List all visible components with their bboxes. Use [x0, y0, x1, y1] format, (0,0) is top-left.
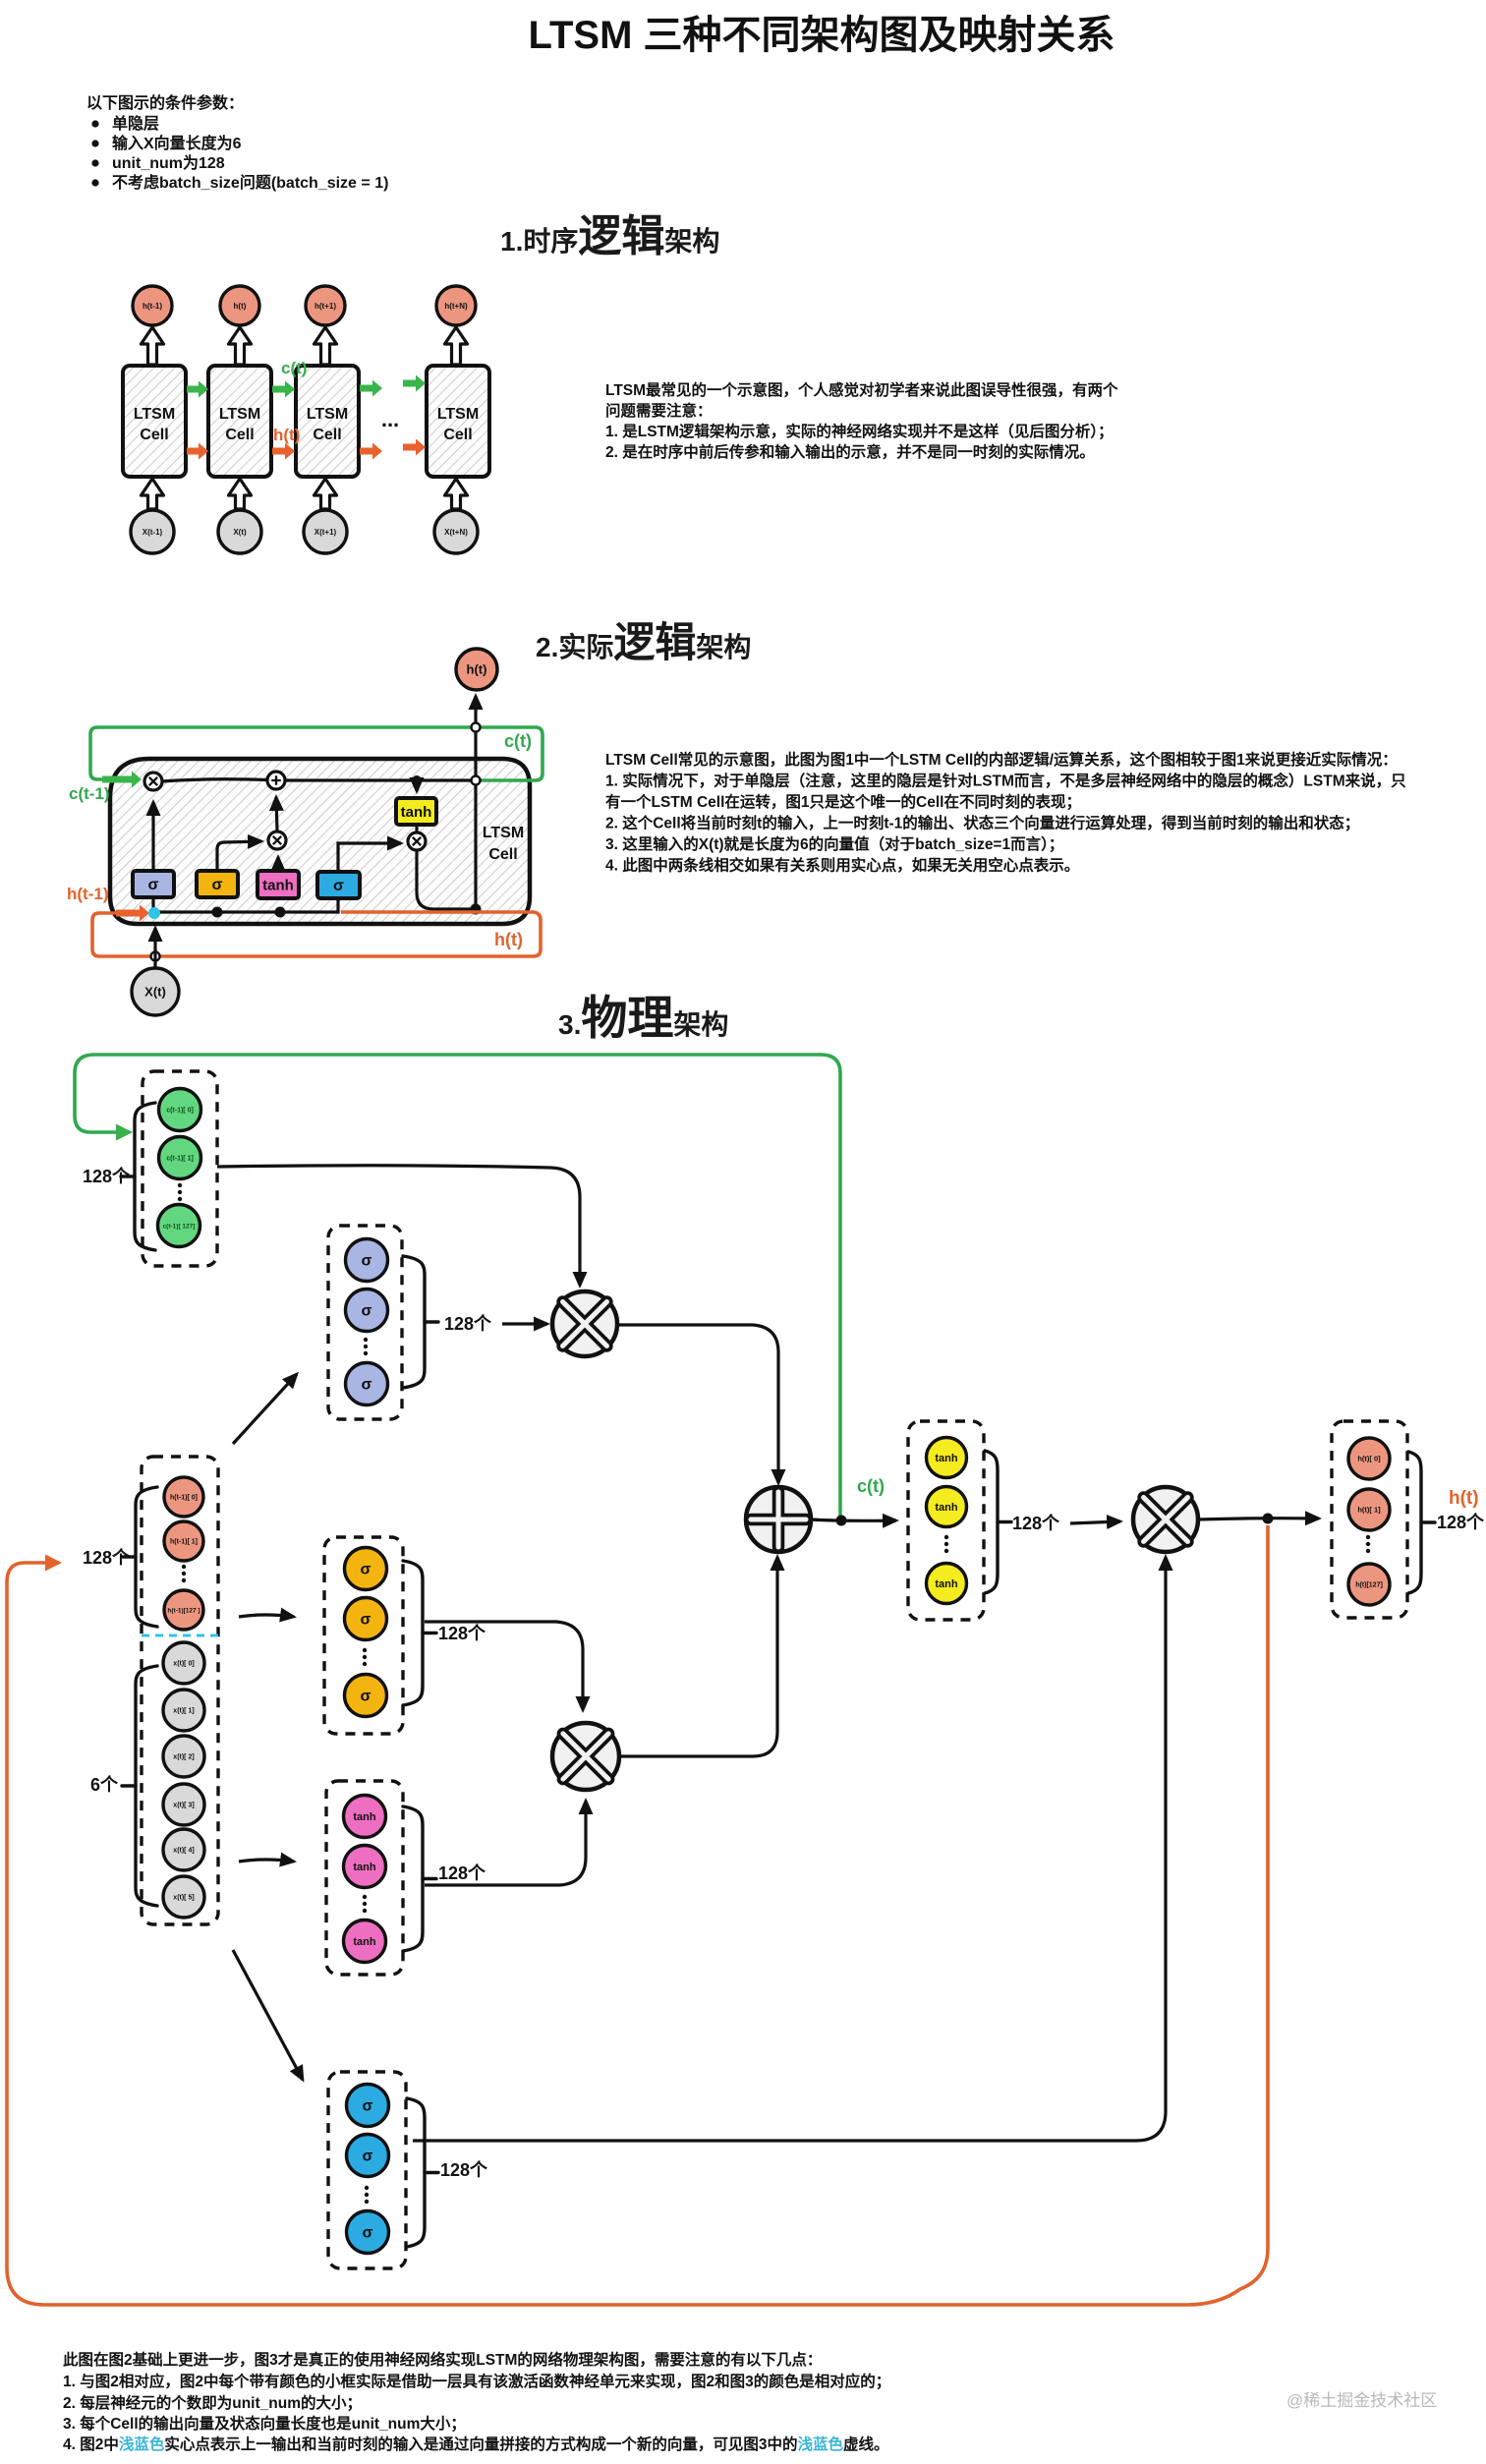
svg-text:σ: σ — [361, 1562, 371, 1578]
neuron h(t-1)[0] — [164, 1477, 203, 1517]
svg-text:h(t+N): h(t+N) — [444, 302, 468, 311]
internal c-state wire — [162, 779, 482, 781]
svg-text:h(t)[127]: h(t)[127] — [1355, 1581, 1383, 1588]
neuron x(t)[ 4] — [163, 1829, 204, 1870]
svg-text:h(t-1)[ 0]: h(t-1)[ 0] — [170, 1494, 198, 1501]
svg-text:X(t+N): X(t+N) — [444, 528, 468, 537]
brace x(t) — [136, 1666, 157, 1906]
neuron sigma-o 2 — [347, 2135, 389, 2177]
svg-text:1. 是LSTM逻辑架构示意，实际的神经网络实现并不是这样（: 1. 是LSTM逻辑架构示意，实际的神经网络实现并不是这样（见后图分析）； — [605, 422, 1114, 440]
group tanh-c dashed box — [326, 1781, 403, 1975]
wire c-line to tanh2 — [415, 780, 418, 791]
svg-text:6个: 6个 — [90, 1774, 119, 1795]
dots — [364, 1338, 368, 1342]
orange h(t) feedback loop — [92, 912, 541, 956]
internal h wire (bottom) — [155, 843, 401, 912]
svg-text:c(t-1)[ 1]: c(t-1)[ 1] — [166, 1155, 194, 1162]
output circle h(t) — [220, 286, 259, 325]
svg-text:4. 此图中两条线相交如果有关系则用实心点，如果无关用空心点: 4. 此图中两条线相交如果有关系则用实心点，如果无关用空心点表示。 — [605, 856, 1079, 875]
svg-text:LTSM: LTSM — [437, 406, 479, 423]
svg-text:2.实际逻辑架构: 2.实际逻辑架构 — [536, 619, 751, 665]
arrow sigma-f to mul1 — [502, 1322, 547, 1325]
group sigma-i dashed box — [324, 1537, 403, 1734]
wire plus to tanh-o group — [811, 1519, 896, 1520]
svg-text:x(t)[ 2]: x(t)[ 2] — [173, 1753, 194, 1760]
svg-text:128个: 128个 — [1437, 1512, 1485, 1532]
svg-text:2. 是在时序中前后传参和输入输出的示意，并不是同一时刻的实: 2. 是在时序中前后传参和输入输出的示意，并不是同一时刻的实际情况。 — [605, 442, 1095, 461]
neuron h(t)[1] — [1348, 1489, 1390, 1530]
svg-text:问题需要注意：: 问题需要注意： — [605, 401, 713, 420]
brace c(t-1) group — [135, 1103, 155, 1250]
gate sigma3 (blue) — [317, 872, 360, 898]
neuron x(t)[ 1] — [163, 1690, 204, 1731]
neuron x(t)[ 2] — [163, 1736, 204, 1777]
brace tanh-o — [985, 1451, 998, 1593]
green c(t) long loop — [75, 1055, 840, 1521]
svg-text:h(t): h(t) — [234, 302, 247, 311]
neuron tanh-o 2 — [927, 1487, 967, 1527]
svg-text:128个: 128个 — [83, 1166, 131, 1186]
junction dots on h wire — [212, 907, 223, 918]
svg-text:σ: σ — [333, 878, 344, 894]
svg-text:σ: σ — [212, 877, 223, 893]
neuron h(t-1)[1] — [164, 1521, 203, 1561]
gate sigma1 (periwinkle) — [133, 871, 174, 897]
dots — [1366, 1535, 1370, 1539]
svg-text:σ: σ — [363, 2225, 373, 2242]
svg-text:h(t-1)[ 1]: h(t-1)[ 1] — [170, 1538, 198, 1545]
svg-text:c(t-1): c(t-1) — [69, 784, 110, 803]
neuron x(t)[ 5] — [163, 1876, 204, 1918]
output circle h(t+N) — [436, 286, 476, 325]
wire mul1 to plus — [617, 1325, 778, 1483]
neuron x(t)[ 0] — [163, 1642, 204, 1684]
svg-text:x(t)[ 3]: x(t)[ 3] — [173, 1802, 194, 1808]
group tanh-o dashed box — [908, 1421, 984, 1620]
dots — [365, 2186, 369, 2190]
junction dot c(t) — [836, 1516, 847, 1526]
op X1 — [144, 773, 162, 790]
dots — [178, 1183, 182, 1187]
wire tanh2 to X3 — [415, 825, 418, 832]
input circle X(t+N) — [434, 510, 478, 553]
neuron h(t-1)[127] — [164, 1590, 203, 1630]
X(t) input wire — [153, 928, 156, 968]
svg-text:128个: 128个 — [438, 1862, 486, 1883]
gate sigma2 (amber) — [197, 871, 238, 897]
svg-text:3. 每个Cell的输出向量及状态向量长度也是unit_nu: 3. 每个Cell的输出向量及状态向量长度也是unit_num大小； — [63, 2414, 466, 2433]
h(t) orange arrows between cells — [187, 443, 208, 460]
svg-text:128个: 128个 — [444, 1313, 492, 1334]
svg-text:此图在图2基础上更进一步，图3才是真正的使用神经网络实现LS: 此图在图2基础上更进一步，图3才是真正的使用神经网络实现LSTM的网络物理架构图… — [63, 2350, 822, 2369]
svg-text:Cell: Cell — [443, 427, 472, 443]
svg-text:σ: σ — [363, 2149, 373, 2165]
svg-text:tanh: tanh — [935, 1578, 958, 1590]
gate tanh (pink) — [257, 871, 299, 898]
orange h(t) long loop — [7, 1525, 1268, 2305]
neuron sigma-f 3 — [346, 1363, 388, 1405]
LSTM cell body hatched box — [110, 759, 530, 924]
output circle h(t+1) — [306, 286, 345, 325]
svg-text:σ: σ — [363, 2098, 373, 2115]
svg-text:不考虑batch_size问题(batch_size = 1: 不考虑batch_size问题(batch_size = 1) — [112, 173, 388, 192]
svg-text:tanh: tanh — [353, 1862, 376, 1873]
svg-text:σ: σ — [361, 1689, 371, 1705]
input circle X(t+1) — [304, 510, 347, 553]
output wire up to h(t) — [474, 696, 477, 909]
svg-text:X(t+1): X(t+1) — [314, 528, 337, 537]
svg-text:h(t+1): h(t+1) — [314, 302, 336, 311]
svg-text:h(t): h(t) — [1449, 1488, 1479, 1509]
neuron tanh-c 1 — [344, 1796, 386, 1838]
svg-text:c(t): c(t) — [857, 1476, 885, 1496]
svg-text:输入X向量长度为6: 输入X向量长度为6 — [112, 134, 242, 152]
svg-text:LTSM: LTSM — [219, 406, 260, 423]
gate tanh2 (yellow) — [396, 798, 436, 825]
svg-text:h(t): h(t) — [494, 930, 523, 949]
group h(t) dashed box — [1332, 1421, 1407, 1618]
svg-text:LTSM: LTSM — [134, 406, 175, 423]
group sigma-f dashed box — [328, 1226, 402, 1419]
svg-text:σ: σ — [361, 1612, 371, 1629]
wire X2 to plus — [276, 797, 277, 831]
svg-text:1. 与图2相对应，图2中每个带有颜色的小框实际是借助一层具: 1. 与图2相对应，图2中每个带有颜色的小框实际是借助一层具有该激活函数神经单元… — [63, 2372, 890, 2390]
wire tanh-c to mul2 — [425, 1801, 586, 1885]
arrow tanh-o to mul3 — [1070, 1521, 1120, 1523]
svg-text:3. 这里输入的X(t)就是长度为6的向量值（对于batch: 3. 这里输入的X(t)就是长度为6的向量值（对于batch_size=1而言）… — [605, 834, 1063, 853]
open dot crossings — [472, 723, 481, 732]
wire sigma2 to X2 — [217, 841, 261, 871]
neuron h(t)[0] — [1348, 1438, 1390, 1479]
block arrow X(t) to cell2 — [229, 479, 252, 509]
LSTM cell 2 — [208, 366, 271, 477]
svg-text:LTSM: LTSM — [307, 406, 348, 423]
svg-text:LTSM最常见的一个示意图，个人感觉对初学者来说此图误导性很: LTSM最常见的一个示意图，个人感觉对初学者来说此图误导性很强，有两个 — [605, 380, 1118, 399]
block arrow cell2 to h(t) — [229, 327, 252, 365]
arrow to sigma-i group — [239, 1615, 294, 1617]
input circle X(t) — [218, 510, 261, 553]
dots — [944, 1535, 948, 1539]
neuron tanh-o 1 — [927, 1438, 967, 1478]
neuron x(t)[ 3] — [163, 1784, 204, 1825]
block arrow X(t-1) to cell1 — [142, 479, 164, 509]
h(t) output circle — [456, 649, 497, 690]
svg-text:Cell: Cell — [225, 427, 254, 443]
svg-text:tanh: tanh — [262, 877, 294, 893]
arrow to sigma-o group — [233, 1950, 303, 2080]
svg-text:σ: σ — [362, 1253, 372, 1270]
brace h(t) group — [1408, 1452, 1421, 1593]
wire sigma-i to mul2 — [425, 1622, 583, 1710]
multiply node mul3 — [1133, 1487, 1198, 1552]
svg-text:x(t)[ 4]: x(t)[ 4] — [173, 1847, 194, 1854]
neuron sigma-f 1 — [346, 1239, 388, 1282]
LSTM cell 1 — [123, 366, 186, 477]
svg-text:...: ... — [381, 407, 399, 431]
block arrow cell3 to h(t+1) — [314, 327, 337, 365]
svg-text:X(t): X(t) — [144, 985, 166, 1000]
wire mul2 to plus — [619, 1557, 777, 1756]
brace sigma-f group — [403, 1256, 425, 1388]
svg-text:1. 实际情况下，对于单隐层（注意，这里的隐层是针对LSTM: 1. 实际情况下，对于单隐层（注意，这里的隐层是针对LSTM而言，不是多层神经网… — [605, 772, 1406, 790]
neuron sigma-i 3 — [345, 1675, 387, 1717]
svg-text:以下图示的条件参数：: 以下图示的条件参数： — [86, 93, 244, 112]
X(t) circle — [132, 968, 179, 1015]
wire sigma1 to X1 — [151, 802, 154, 871]
input circle X(t-1) — [131, 510, 174, 553]
svg-text:h(t): h(t) — [467, 662, 487, 677]
wire sigma-o to mul3 — [413, 1557, 1166, 2141]
neuron sigma-f 2 — [346, 1289, 388, 1332]
svg-text:128个: 128个 — [438, 1623, 486, 1643]
svg-text:LTSM: LTSM — [483, 825, 524, 841]
svg-text:tanh: tanh — [353, 1811, 376, 1823]
svg-text:x(t)[ 1]: x(t)[ 1] — [173, 1707, 194, 1714]
cyan concat divider — [142, 1634, 218, 1637]
LSTM cell 4 — [427, 366, 489, 477]
neuron c(t-1)[127] — [158, 1205, 200, 1247]
svg-text:3.物理架构: 3.物理架构 — [558, 992, 728, 1044]
svg-text:2. 每层神经元的个数即为unit_num的大小；: 2. 每层神经元的个数即为unit_num的大小； — [63, 2393, 362, 2412]
svg-text:c(t): c(t) — [281, 359, 307, 377]
svg-text:σ: σ — [148, 877, 159, 893]
svg-text:tanh: tanh — [935, 1502, 958, 1514]
green c(t) feedback loop — [90, 727, 543, 780]
svg-text:tanh: tanh — [353, 1936, 376, 1948]
neuron sigma-i 2 — [345, 1598, 387, 1640]
arrow to sigma-f group — [233, 1374, 297, 1444]
svg-text:Cell: Cell — [313, 427, 341, 443]
svg-text:LTSM 三种不同架构图及映射关系: LTSM 三种不同架构图及映射关系 — [528, 14, 1114, 57]
junction dot h(t) — [1263, 1514, 1274, 1524]
svg-text:@稀土掘金技术社区: @稀土掘金技术社区 — [1286, 2391, 1437, 2410]
group sigma-o dashed box — [328, 2072, 406, 2268]
multiply node mul2 — [552, 1723, 619, 1790]
svg-text:c(t-1)[ 127]: c(t-1)[ 127] — [163, 1223, 196, 1230]
wire X3 to output junction — [417, 850, 475, 909]
neuron h(t)[127] — [1348, 1564, 1390, 1605]
op plus — [267, 772, 285, 789]
dots — [363, 1895, 367, 1899]
svg-text:Cell: Cell — [488, 846, 517, 863]
svg-text:x(t)[ 5]: x(t)[ 5] — [173, 1894, 194, 1901]
brace sigma-i — [403, 1561, 423, 1705]
wire tanh to X2 — [276, 857, 279, 870]
svg-text:c(t-1)[ 0]: c(t-1)[ 0] — [166, 1107, 194, 1114]
group c(t-1) dashed box — [143, 1071, 217, 1266]
svg-text:X(t-1): X(t-1) — [143, 528, 163, 537]
dots — [363, 1648, 367, 1652]
neuron sigma-o 3 — [347, 2211, 389, 2254]
svg-text:h(t-1): h(t-1) — [67, 885, 108, 903]
brace tanh-c — [403, 1806, 423, 1951]
wire c(t-1) group to mul1 — [217, 1166, 580, 1286]
svg-text:σ: σ — [362, 1377, 372, 1394]
svg-text:128个: 128个 — [1012, 1513, 1060, 1533]
add node plus — [746, 1487, 811, 1552]
svg-text:h(t-1): h(t-1) — [143, 302, 162, 311]
svg-text:2. 这个Cell将当前时刻t的输入，上一时刻t-1的输出、: 2. 这个Cell将当前时刻t的输入，上一时刻t-1的输出、状态三个向量进行运算… — [605, 814, 1359, 832]
neuron sigma-o 1 — [347, 2085, 389, 2127]
svg-text:tanh: tanh — [935, 1453, 958, 1464]
svg-text:x(t)[ 0]: x(t)[ 0] — [173, 1660, 194, 1667]
block arrow cell4 to h(t+N) — [445, 327, 468, 365]
svg-text:tanh: tanh — [401, 804, 432, 821]
dots — [182, 1565, 186, 1569]
op X2 — [268, 831, 286, 849]
svg-text:128个: 128个 — [440, 2159, 488, 2180]
svg-text:h(t)[ 0]: h(t)[ 0] — [1357, 1455, 1381, 1463]
multiply node mul1 — [552, 1291, 617, 1356]
cyan concat dot — [148, 907, 160, 919]
brace h(t-1) — [136, 1487, 157, 1627]
LSTM cell 3 — [296, 366, 359, 477]
svg-text:σ: σ — [362, 1303, 372, 1320]
arrow to tanh-c group — [239, 1860, 294, 1862]
svg-text:c(t): c(t) — [504, 731, 532, 751]
svg-text:4. 图2中浅蓝色实心点表示上一输出和当前时刻的输入是通过向: 4. 图2中浅蓝色实心点表示上一输出和当前时刻的输入是通过向量拼接的方式构成一个… — [63, 2435, 889, 2453]
svg-text:h(t-1)[127 ]: h(t-1)[127 ] — [167, 1607, 200, 1614]
neuron tanh-c 2 — [344, 1846, 386, 1888]
block arrow X(t+N) to cell4 — [445, 479, 468, 509]
svg-text:h(t): h(t) — [273, 426, 300, 444]
svg-text:h(t)[ 1]: h(t)[ 1] — [1357, 1506, 1381, 1515]
svg-text:单隐层: 单隐层 — [112, 114, 159, 133]
block arrow cell1 to h(t-1) — [142, 327, 164, 365]
svg-text:unit_num为128: unit_num为128 — [112, 153, 225, 172]
neuron sigma-i 1 — [345, 1548, 387, 1590]
svg-text:Cell: Cell — [140, 427, 168, 443]
c(t) green arrows between cells — [187, 381, 208, 398]
svg-text:X(t): X(t) — [233, 528, 247, 537]
svg-text:128个: 128个 — [83, 1547, 131, 1568]
neuron tanh-o 3 — [927, 1564, 967, 1604]
wire mul3 to h(t) group — [1198, 1519, 1319, 1519]
neuron tanh-c 3 — [344, 1920, 386, 1963]
brace sigma-o — [407, 2098, 425, 2247]
svg-text:有一个LSTM Cell在运转，图1只是这个唯一的Cell在: 有一个LSTM Cell在运转，图1只是这个唯一的Cell在不同时刻的表现； — [605, 792, 1081, 811]
svg-text:1.时序逻辑架构: 1.时序逻辑架构 — [500, 212, 719, 260]
neuron c(t-1)[0] — [159, 1089, 201, 1131]
group h(t-1)+x(t) dashed box — [142, 1457, 218, 1924]
block arrow X(t+1) to cell3 — [314, 479, 337, 509]
output circle h(t-1) — [133, 286, 172, 325]
neuron c(t-1)[1] — [159, 1137, 201, 1179]
svg-text:LTSM Cell常见的示意图，此图为图1中一个LSTM C: LTSM Cell常见的示意图，此图为图1中一个LSTM Cell的内部逻辑/运… — [605, 750, 1398, 769]
op X3 — [408, 832, 426, 850]
